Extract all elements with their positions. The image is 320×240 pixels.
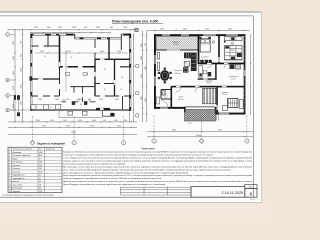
left plan axis circle Г left [6, 33, 10, 37]
svg-text:2100: 2100 [205, 28, 209, 30]
paper sheet [0, 12, 262, 202]
drawing frame bottom line [0, 196, 254, 198]
right plan left dimension chain 2 [146, 30, 148, 122]
svg-text:Сан.: Сан. [164, 96, 168, 98]
right plan left dimension chain 1 [142, 30, 144, 122]
right plan bathroom fixtures [199, 66, 203, 78]
svg-text:Примечание: Примечание [46, 149, 55, 151]
right plan furniture: bed bedroom 1 [200, 39, 210, 52]
svg-text:900: 900 [88, 99, 91, 101]
svg-text:5: 5 [9, 165, 10, 167]
left plan top dimension line 2 [31, 32, 111, 34]
left plan exterior top wall west section [31, 33, 75, 35]
right plan door arcs [207, 64, 212, 69]
left plan bottom colonnade piers west [31, 105, 36, 109]
left plan exterior top wall east section [121, 33, 131, 35]
svg-text:3700: 3700 [90, 126, 94, 128]
left plan left dimension chain line 1 [14, 30, 16, 122]
svg-text:09: 09 [104, 89, 106, 91]
svg-text:2050: 2050 [36, 120, 40, 122]
svg-text:900: 900 [21, 85, 23, 88]
svg-text:07: 07 [50, 107, 52, 109]
notes small grid table [121, 186, 192, 188]
left plan interior wall G (horiz y66.8 right) [120, 66, 130, 68]
svg-text:Вентиляция: естественная по ве: Вентиляция: естественная по вентиляционн… [63, 166, 252, 168]
left plan bottom dimension chain 3 overall [8, 133, 137, 135]
svg-text:отчистность не допускается авт: отчистность не допускается автоматизиров… [63, 154, 213, 157]
svg-text:Котельная: Котельная [229, 76, 237, 78]
left plan bottom axis circle 2 [72, 141, 76, 145]
svg-text:5,48: 5,48 [39, 152, 42, 154]
svg-text:1050: 1050 [114, 120, 118, 122]
left plan interior wall K east (horiz y96) [95, 95, 131, 97]
svg-text:950: 950 [124, 120, 127, 122]
svg-text:2150: 2150 [96, 27, 100, 29]
left plan small door marks mid rooms [66, 73, 70, 76]
svg-text:900: 900 [110, 27, 113, 29]
left plan bottom axis diamond 1 [30, 141, 35, 146]
svg-text:30,8: 30,8 [39, 155, 42, 157]
right plan furniture: coffee table [184, 62, 189, 67]
svg-text:750: 750 [21, 41, 23, 44]
svg-text:13000: 13000 [71, 131, 76, 133]
svg-text:2.16-11-2025: 2.16-11-2025 [222, 191, 244, 195]
svg-text:1,7: 1,7 [39, 178, 41, 180]
left plan axis circle А left [6, 108, 10, 112]
svg-text:1500: 1500 [38, 99, 42, 101]
svg-text:Котельная: Котельная [12, 188, 22, 190]
right plan desk bedroom2 [240, 100, 244, 109]
svg-text:Терраса: Терраса [12, 191, 20, 193]
svg-text:1500: 1500 [13, 41, 15, 45]
porch step lines [215, 111, 217, 121]
svg-text:4720: 4720 [42, 126, 46, 128]
left plan interior wall C2 (horiz y79) [30, 78, 60, 80]
left plan bottom axis circle 3 [121, 141, 125, 145]
right plan exterior left wall [154, 34, 156, 109]
right plan furniture: sofa set [191, 53, 197, 72]
scanned sheet background [0, 0, 270, 218]
svg-text:террасу оборудовать ограждение: террасу оборудовать ограждением высотой … [63, 177, 161, 180]
room schedule table grid [8, 147, 62, 193]
left plan axis circle 4 right [135, 28, 139, 32]
right plan top dimension line [147, 29, 250, 31]
svg-text:17: 17 [39, 158, 41, 160]
right plan exterior top wall [154, 34, 246, 36]
svg-text:4,9: 4,9 [39, 181, 41, 183]
svg-text:3250: 3250 [66, 126, 70, 128]
right plan interior wall vert x198.5 [198, 35, 200, 64]
svg-text:12000: 12000 [196, 135, 201, 137]
left plan bottom dimension chain 2 [8, 126, 137, 128]
svg-text:Ванная: Ванная [12, 181, 19, 183]
svg-text:17.9 м²: 17.9 м² [173, 43, 179, 46]
svg-text:Окна. Оконные блоки из ПВХ про: Окна. Оконные блоки из ПВХ профилей с дв… [63, 168, 231, 171]
svg-text:Стены. Наружные стены из газоб: Стены. Наружные стены из газобетонных бл… [63, 157, 253, 160]
right plan terrace decking hatch [157, 37, 199, 50]
svg-text:Спальня: Спальня [221, 92, 228, 94]
left plan top dimension line 1 [8, 29, 137, 31]
svg-text:1: 1 [9, 152, 10, 154]
right plan interior wall terrace bottom [156, 49, 199, 51]
left plan left porch piers [14, 95, 16, 100]
svg-text:1700: 1700 [123, 27, 127, 29]
svg-text:4: 4 [9, 162, 10, 164]
title block list cell [245, 185, 257, 189]
svg-text:6,1: 6,1 [39, 175, 41, 177]
svg-text:11: 11 [9, 184, 11, 186]
svg-text:900: 900 [47, 27, 50, 29]
svg-text:Спальня: Спальня [202, 57, 209, 59]
svg-text:Данее Ведущая четырёхмесячн ус: Данее Ведущая четырёхмесячн установку ко… [63, 184, 166, 186]
svg-text:1100: 1100 [63, 120, 67, 122]
svg-text:Примечание: Примечание [141, 148, 155, 150]
sheet top edge line [0, 11, 262, 13]
svg-text:1340: 1340 [13, 71, 15, 75]
right plan exterior bottom wall left section [154, 107, 185, 109]
svg-text:9: 9 [9, 178, 10, 180]
svg-text:2100: 2100 [13, 104, 15, 108]
svg-text:6: 6 [9, 168, 10, 170]
svg-text:Сан. Узел: Сан. Узел [12, 184, 22, 186]
left plan interior wall K west (horiz y96) [31, 95, 59, 97]
right plan furniture: tv unit [157, 53, 159, 60]
right plan bottom axis circle 1 [152, 139, 156, 143]
left plan interior wall C (vert x59.5) [59, 35, 61, 68]
left plan interior wall N (horiz y86.6) [70, 86, 95, 88]
right plan kitchen counter [225, 46, 243, 61]
left plan bottom axis leader lines [31, 116, 33, 140]
title block list number cell [245, 188, 257, 197]
svg-text:2: 2 [9, 155, 10, 157]
right plan right side dimension line [250, 35, 252, 114]
svg-text:04: 04 [45, 79, 47, 81]
right plan corridor wall horiz y86.5 [171, 86, 245, 88]
svg-text:4100: 4100 [67, 51, 71, 53]
sheet bottom edge line [0, 202, 262, 204]
right plan bottom dimension chain 1 [147, 131, 253, 133]
left plan interior wall I (vert x114.5) [114, 59, 116, 96]
right plan stair enclosure [203, 88, 217, 104]
title block date box [191, 187, 245, 198]
drawing frame top line [0, 15, 254, 17]
left plan interior wall N stub (vert x74) [73, 87, 75, 93]
left plan bottom wall window section [96, 108, 110, 110]
left plan exterior top wall recessed middle section [75, 37, 122, 39]
svg-text:Спальня: Спальня [12, 168, 20, 170]
svg-text:750: 750 [145, 43, 147, 46]
left plan interior wall A (horiz y46) [31, 45, 59, 47]
svg-text:Кухня: Кухня [12, 158, 18, 160]
svg-text:03: 03 [86, 74, 88, 76]
drawing frame right line [253, 16, 255, 197]
right plan bottom axis diamond [199, 139, 204, 144]
svg-text:1,8: 1,8 [39, 184, 41, 186]
svg-text:Отделку наружных стен выполнит: Отделку наружных стен выполнить согласно… [63, 159, 252, 162]
left plan bottom dimension chain 1 [8, 121, 137, 123]
left plan right dimension chain line 2 [133, 33, 135, 122]
left plan interior wall D (vert x109) [108, 39, 110, 59]
svg-text:800: 800 [21, 54, 23, 57]
svg-text:Диаметр вентиляционных каналов: Диаметр вентиляционных каналов смотреть … [63, 180, 252, 183]
right plan boiler room appliances [230, 65, 235, 70]
right plan interior wall vert x219 [218, 35, 220, 64]
svg-text:Ведомость помещений: Ведомость помещений [37, 143, 65, 146]
svg-text:Коридор: Коридор [206, 81, 213, 83]
left plan axis circle В left [6, 78, 10, 82]
svg-text:1300: 1300 [92, 120, 96, 122]
svg-text:15,8: 15,8 [39, 171, 42, 173]
left plan interior wall E (horiz y59.3) [95, 58, 130, 60]
svg-text:08: 08 [80, 104, 82, 106]
left plan interior wall J (horiz y83.5) [95, 83, 115, 85]
svg-text:Наименование помещения: Наименование помещения [13, 149, 33, 151]
svg-text:вход: вход [188, 122, 191, 124]
svg-text:Кухня: Кухня [231, 50, 236, 52]
right plan kitchen top counter [225, 37, 243, 41]
svg-text:Прихожая: Прихожая [12, 152, 21, 154]
svg-text:2600: 2600 [228, 28, 232, 30]
right plan furniture: armchair [183, 67, 188, 72]
right plan furniture: dining table [160, 70, 169, 81]
left plan axis circle 1 right [135, 114, 139, 118]
svg-text:4250: 4250 [172, 130, 176, 132]
left plan interior wall H (vert x95) [94, 39, 96, 59]
svg-text:12: 12 [9, 188, 11, 190]
svg-text:10: 10 [120, 89, 122, 91]
svg-text:1800: 1800 [115, 99, 119, 101]
left plan interior dimension line vertical [65, 50, 67, 92]
left plan exterior bottom wall double line [31, 108, 131, 110]
svg-text:1200: 1200 [50, 120, 54, 122]
left plan axis circle 3 right [135, 64, 139, 68]
left plan interior wall B (vert x48) [47, 35, 49, 46]
right plan furniture: bedroom1 dresser [200, 60, 203, 63]
left plan axis circle 2 right [135, 91, 139, 95]
right plan bottom dimension chain 2 [147, 136, 253, 138]
right plan bottom step walls [184, 107, 186, 113]
svg-text:13,3: 13,3 [39, 165, 42, 167]
svg-text:Спальня: Спальня [12, 171, 20, 173]
left plan axis circle row top-right [134, 28, 138, 32]
left plan bottom right step [101, 111, 103, 117]
svg-text:01: 01 [44, 56, 46, 58]
svg-text:Гостинная: Гостинная [12, 162, 22, 164]
svg-text:1800: 1800 [117, 51, 121, 53]
svg-text:3300: 3300 [117, 126, 121, 128]
right plan entrance porch hatch [185, 110, 216, 122]
left plan interior dimension line horizontal [35, 52, 128, 54]
left plan exterior right wall [128, 34, 130, 111]
right plan bath wall horiz y79 [198, 78, 217, 79]
svg-text:06: 06 [121, 77, 123, 79]
svg-text:2980: 2980 [55, 99, 59, 101]
svg-text:1370: 1370 [78, 99, 82, 101]
left plan top wall step verticals [74, 34, 76, 39]
svg-text:1200: 1200 [21, 68, 23, 72]
svg-text:4400: 4400 [183, 28, 187, 30]
svg-text:1400: 1400 [21, 101, 23, 105]
svg-text:30.8 м²: 30.8 м² [175, 72, 181, 75]
left plan interior wall F (horiz y66.8 center) [60, 66, 96, 68]
right plan wc fixture [162, 91, 166, 96]
left plan interior wall P (horiz y101.8 segments) [61, 101, 66, 103]
svg-text:2340: 2340 [141, 74, 143, 78]
svg-text:4250: 4250 [160, 28, 164, 30]
right plan hall wall vert x171.3 [171, 87, 173, 109]
svg-text:6,6: 6,6 [39, 188, 41, 190]
right plan bath wall vert x216 [215, 64, 216, 80]
svg-text:900: 900 [63, 99, 66, 101]
svg-text:Гардеробная: Гардеробная [12, 178, 24, 180]
svg-text:900: 900 [66, 99, 69, 101]
right plan interior wall horiz y63.5 [198, 63, 246, 65]
svg-text:13,8: 13,8 [39, 162, 42, 164]
right plan exterior bottom wall right section [216, 113, 246, 115]
left plan interior wall O (vert x82.4) [81, 87, 83, 102]
right plan bottom axis circle 3 [245, 139, 249, 143]
right plan ceiling lamps [212, 41, 214, 43]
svg-text:8: 8 [9, 175, 10, 177]
svg-text:Гардеробная: Гардеробная [12, 175, 24, 177]
svg-text:13,7: 13,7 [39, 168, 42, 170]
svg-text:900: 900 [103, 120, 106, 122]
right plan bottom axis leaders [153, 115, 155, 139]
svg-text:2100: 2100 [99, 99, 103, 101]
left plan right dimension chain line 1 [129, 33, 131, 122]
right plan wardrobe unit [228, 99, 239, 108]
left plan bottom colonnade piers south [68, 111, 73, 115]
svg-text:2750: 2750 [145, 98, 147, 102]
svg-text:№: № [9, 148, 11, 151]
left plan axis circle Б left [6, 94, 10, 98]
svg-text:2150: 2150 [58, 27, 62, 29]
svg-text:2600: 2600 [100, 51, 104, 53]
svg-text:3200: 3200 [13, 86, 15, 90]
svg-text:10: 10 [9, 181, 11, 183]
svg-text:05: 05 [104, 69, 106, 71]
svg-text:2980: 2980 [13, 56, 15, 60]
svg-text:1500: 1500 [141, 43, 143, 47]
svg-text:7: 7 [9, 171, 10, 173]
svg-text:7750: 7750 [218, 130, 222, 132]
svg-text:Лист. 6: Лист. 6 [250, 199, 255, 201]
svg-text:Экспликация помещений. площади: Экспликация помещений. площади даны по в… [2, 194, 55, 197]
right plan exterior right wall [244, 34, 246, 114]
svg-text:14.0 м²: 14.0 м² [178, 98, 184, 101]
left plan interior wall SE room (vert x122.5) [122, 96, 124, 109]
sheet right edge line [261, 12, 263, 202]
svg-text:выполнением примыканий по узла: выполнением примыканий по узлам сопряжен… [63, 162, 125, 165]
svg-text:13: 13 [9, 191, 11, 193]
right plan bedroom2 left wall [216, 87, 217, 113]
svg-text:2980: 2980 [141, 56, 143, 60]
left plan bottom colonnade line west [31, 104, 62, 106]
svg-text:02: 02 [70, 57, 72, 59]
left plan bottom porch edge line [59, 116, 102, 118]
svg-text:3200: 3200 [141, 96, 143, 100]
svg-text:120: 120 [84, 27, 87, 29]
svg-text:1700: 1700 [34, 27, 38, 29]
svg-text:5150: 5150 [145, 66, 147, 70]
left plan bottom wall axis line [10, 109, 131, 111]
svg-text:3200: 3200 [40, 51, 44, 53]
hall small cabinet [157, 97, 160, 104]
svg-text:Окна мансардные установить с н: Окна мансардные установить с наружным от… [63, 171, 188, 174]
svg-text:6: 6 [250, 192, 253, 197]
svg-text:3: 3 [9, 158, 10, 160]
svg-text:План помещения отм. 0.000: План помещения отм. 0.000 [112, 20, 158, 24]
svg-text:Двери: входные металлические у: Двери: входные металлические утеплённые,… [63, 174, 252, 177]
svg-text:1500: 1500 [78, 120, 82, 122]
left plan exterior left wall [30, 34, 32, 111]
svg-text:Гостиная комната: Гостиная комната [12, 155, 30, 157]
left plan wall P piers [72, 101, 75, 105]
svg-text:1200: 1200 [72, 27, 76, 29]
svg-text:Фундаменты. Железобетонные мон: Фундаменты. Железобетонные монолитные по… [63, 151, 252, 154]
left plan left dimension chain line 2 [22, 30, 24, 122]
svg-text:17,9: 17,9 [39, 191, 42, 193]
right plan wc walls [161, 89, 171, 91]
svg-text:Спальня: Спальня [12, 165, 20, 167]
